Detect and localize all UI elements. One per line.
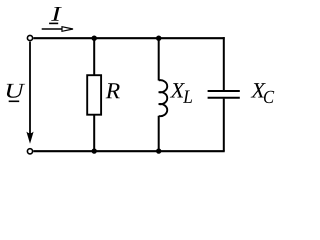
label XL — [170, 83, 192, 103]
node junction bottom at resistor branch — [92, 148, 97, 153]
node junction top at resistor branch — [92, 36, 97, 41]
terminal bottom-left (open circle) — [27, 149, 32, 154]
wire inductor branch top — [158, 38, 160, 81]
label I (current) — [51, 7, 62, 21]
inductor XL (coil of 3 arcs) — [159, 80, 168, 116]
wire bottom bus — [33, 150, 224, 152]
label U (voltage) — [7, 84, 25, 98]
wire inductor branch bottom — [158, 116, 160, 152]
wire resistor branch bottom — [93, 115, 95, 151]
terminal top-left (open circle) — [27, 35, 32, 40]
wire top bus — [33, 37, 224, 39]
voltage arrow U (downward between terminals) — [26, 42, 33, 144]
wire resistor branch top — [93, 38, 95, 75]
label R — [106, 83, 120, 98]
resistor R (rectangle body) — [87, 75, 101, 115]
current arrow I (line with open arrowhead) — [42, 27, 73, 32]
underline of I — [49, 22, 58, 24]
underline of U — [9, 100, 20, 102]
label XC — [251, 83, 275, 103]
node junction top at inductor branch — [156, 36, 161, 41]
wire capacitor branch top (right side down) — [223, 37, 225, 90]
capacitor XC bottom plate — [208, 97, 240, 99]
capacitor XC top plate — [208, 90, 240, 92]
wire capacitor branch bottom — [223, 99, 225, 152]
node junction bottom at inductor branch — [156, 148, 161, 153]
